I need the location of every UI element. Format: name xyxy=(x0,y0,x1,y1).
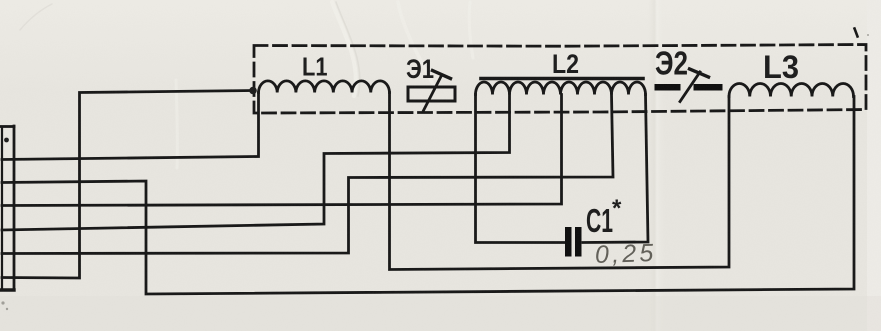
wire R2: connector pin2 down and along bottom to L3 right terminal xyxy=(2,97,854,295)
inductor L2 xyxy=(476,82,646,95)
wire: L1 right terminal to L3 left terminal xyxy=(390,93,730,270)
core bar of L2 xyxy=(481,77,643,81)
connector X1 (cut at left edge) xyxy=(1,126,14,290)
wire R4: connector pin4 to L2 tap1 xyxy=(2,95,510,231)
capacitor C1 left plate xyxy=(565,227,572,257)
node A: screen connection dot xyxy=(249,87,257,95)
inductor L1 xyxy=(259,81,390,93)
screen shield box (dashed) xyxy=(254,45,866,114)
wire R3: connector pin3 to L2 tap2 xyxy=(2,95,562,206)
wire R1: connector pin1 to L1 left terminal xyxy=(2,93,259,160)
screen Э2 left bar xyxy=(655,84,681,91)
wire: C1 right plate up to L2 right terminal xyxy=(583,95,648,243)
wire: L2 left terminal down to C1 left plate xyxy=(476,95,566,243)
arrow of trimmer Э1 xyxy=(424,76,442,111)
core of trimmer Э1 xyxy=(408,87,455,101)
node dot in connector top cell xyxy=(4,138,9,143)
wire R5: connector pin5 to L2 tap3 xyxy=(2,95,613,254)
arrow of Э2 xyxy=(680,72,700,102)
capacitor C1 right plate xyxy=(575,227,582,257)
paper tick mark top right xyxy=(855,29,858,37)
wire R6: connector pin6 up to screen junction at L1 xyxy=(2,91,253,279)
screen Э2 right bar xyxy=(694,84,723,91)
inductor L3 xyxy=(729,83,854,96)
